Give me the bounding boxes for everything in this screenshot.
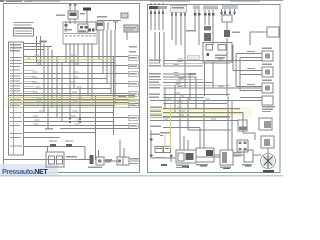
svg-text:Pressauto.NET: Pressauto.NET [2, 167, 48, 176]
